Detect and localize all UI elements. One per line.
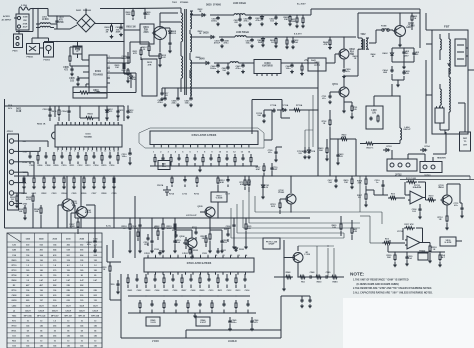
- resistor R317 fb: [403, 223, 423, 243]
- svg-text:C507A: C507A: [157, 184, 164, 187]
- wire bus H-POS: [75, 210, 310, 219]
- node B+ 200V: [290, 4, 311, 28]
- svg-text:A-5.1: A-5.1: [314, 64, 320, 67]
- capacitor C404 S-cap: [382, 66, 393, 80]
- svg-text:C521: C521: [32, 193, 38, 195]
- svg-text:10: 10: [81, 341, 83, 343]
- svg-text:C611: C611: [119, 110, 125, 112]
- svg-text:PR601: PR601: [27, 57, 34, 59]
- wire: [22, 147, 40, 193]
- svg-text:Q506: Q506: [179, 236, 185, 238]
- svg-text:2: 2: [61, 151, 62, 153]
- resistor R510 box: [211, 188, 227, 210]
- capacitor C650: [342, 69, 351, 79]
- capacitor C324: [412, 204, 422, 219]
- svg-text:68: 68: [27, 331, 29, 333]
- svg-text:12K: 12K: [247, 228, 251, 230]
- resistor R616 feedback box: [73, 87, 107, 98]
- op-amp IC702b: [397, 231, 422, 249]
- resistor R611: [133, 47, 142, 60]
- svg-text:V-LIN: V-LIN: [150, 322, 156, 324]
- capacitor C645: [157, 88, 196, 107]
- svg-text:R513: R513: [86, 165, 92, 167]
- capacitor C546: [250, 317, 259, 331]
- inductor L620: [218, 3, 250, 15]
- svg-text:C610: C610: [209, 290, 214, 292]
- svg-text:120uH: 120uH: [38, 310, 44, 312]
- capacitor C617: [160, 88, 169, 101]
- svg-text:2K: 2K: [202, 238, 205, 240]
- capacitor C518: [143, 217, 153, 252]
- relay PR601: [27, 44, 40, 59]
- resistor R320: [387, 252, 397, 267]
- wire: [32, 21, 49, 48]
- svg-text:145: 145: [26, 345, 29, 348]
- resistor R549: [298, 276, 307, 284]
- svg-text:10: 10: [40, 320, 42, 322]
- svg-text:10uH: 10uH: [93, 305, 98, 307]
- svg-text:T601: T601: [172, 2, 178, 4]
- transistor Q508: [284, 246, 311, 270]
- wire: [128, 295, 250, 296]
- wire: [48, 9, 70, 30]
- svg-text:100P: 100P: [273, 169, 278, 171]
- wire ground bus: [14, 176, 231, 258]
- svg-text:1000u: 1000u: [210, 68, 217, 70]
- resistor R550: [102, 262, 111, 277]
- svg-text:68: 68: [40, 331, 42, 333]
- svg-text:1000u: 1000u: [211, 21, 218, 23]
- svg-text:NOTE:: NOTE:: [350, 272, 365, 277]
- svg-text:AC INPUT: AC INPUT: [2, 19, 13, 22]
- svg-text:63R: 63R: [240, 184, 244, 186]
- transistor Q504: [71, 203, 92, 218]
- svg-text:C527: C527: [92, 193, 98, 195]
- svg-text:2: 2: [155, 255, 156, 257]
- transistor Q601 2SK2545: [140, 24, 167, 44]
- svg-text:10K: 10K: [19, 211, 23, 213]
- resistor R321: [438, 252, 445, 267]
- block vertical board outline: [121, 274, 281, 343]
- diode D703: [383, 146, 392, 152]
- svg-text:10: 10: [96, 151, 98, 153]
- svg-text:1.2: 1.2: [26, 265, 29, 267]
- svg-text:145: 145: [67, 345, 70, 348]
- capacitor C621: [243, 14, 251, 25]
- diode D611: [16, 106, 30, 113]
- resistor R548: [283, 271, 293, 278]
- svg-text:145: 145: [80, 335, 83, 338]
- resistor R551: [330, 276, 344, 284]
- svg-text:D402: D402: [382, 52, 388, 55]
- svg-text:279: 279: [53, 260, 56, 262]
- svg-text:100K: 100K: [126, 14, 131, 16]
- svg-text:180: 180: [26, 270, 29, 272]
- diode D704: [420, 145, 430, 152]
- svg-text:655: 655: [80, 250, 83, 252]
- resistor R607: [360, 142, 400, 149]
- svg-text:455: 455: [67, 244, 70, 247]
- svg-text:12: 12: [230, 255, 232, 257]
- svg-text:R506: R506: [38, 165, 44, 167]
- svg-text:1.2: 1.2: [94, 265, 97, 267]
- capacitor C549: [323, 271, 331, 279]
- svg-text:39K: 39K: [284, 19, 288, 21]
- svg-text:C711A: C711A: [270, 104, 277, 107]
- op-amp IC503 LA7840 vertical out: [144, 255, 254, 275]
- svg-text:270: 270: [53, 270, 56, 272]
- pin numbers IC501: [57, 150, 119, 153]
- connector AC socket C601: [16, 14, 29, 30]
- wire vertical bundle: [305, 95, 313, 147]
- svg-text:4K7: 4K7: [40, 284, 43, 287]
- resistor R523: [155, 217, 165, 252]
- svg-text:D707A: D707A: [309, 150, 316, 153]
- diode D604: [130, 73, 138, 84]
- svg-text:C2B: C2B: [12, 250, 17, 252]
- svg-text:10: 10: [40, 341, 42, 343]
- resistor R310: [388, 194, 398, 200]
- wire: [366, 184, 462, 203]
- resistor R307: [357, 190, 368, 207]
- svg-text:1.2: 1.2: [40, 265, 43, 267]
- svg-text:C715: C715: [182, 194, 188, 196]
- svg-text:180: 180: [40, 270, 43, 272]
- svg-text:C2383: C2383: [278, 192, 285, 194]
- capacitor C405: [402, 70, 410, 80]
- svg-text:630: 630: [53, 295, 56, 297]
- svg-text:1R: 1R: [439, 219, 442, 221]
- svg-text:10: 10: [67, 320, 69, 322]
- resistor R311 feedback: [405, 178, 426, 198]
- svg-text:10uH: 10uH: [25, 305, 30, 307]
- resistor R640: [323, 36, 332, 49]
- svg-text:L620 100uH: L620 100uH: [233, 3, 246, 5]
- resistor labels secondary: [196, 9, 204, 59]
- svg-text:470K: 470K: [23, 22, 28, 25]
- svg-text:39: 39: [54, 331, 56, 333]
- resistor R519: [166, 217, 176, 236]
- svg-text:3: 3: [66, 151, 67, 153]
- svg-text:MFT-09: MFT-09: [78, 315, 85, 317]
- block L603 linearity: [366, 102, 383, 129]
- svg-text:IC502 LA7845 CJ7840S: IC502 LA7845 CJ7840S: [192, 134, 217, 137]
- svg-text:80: 80: [81, 275, 83, 277]
- wire: [392, 79, 404, 86]
- svg-text:R526: R526: [82, 193, 88, 195]
- svg-text:803: 803: [94, 295, 97, 297]
- wire: [86, 84, 89, 87]
- svg-text:10: 10: [215, 255, 217, 257]
- svg-text:6: 6: [79, 151, 80, 153]
- capacitor C519: [173, 236, 181, 253]
- svg-text:V FOU: V FOU: [152, 341, 159, 343]
- svg-text:D620: D620: [206, 5, 212, 7]
- svg-text:10K: 10K: [115, 67, 119, 69]
- svg-text:10K: 10K: [94, 92, 99, 94]
- svg-text:MFT-007: MFT-007: [51, 315, 59, 317]
- zener ZD701: [261, 175, 270, 198]
- svg-text:197: 197: [40, 300, 43, 302]
- svg-text:KIA78R05: KIA78R05: [262, 65, 273, 68]
- svg-text:7: 7: [109, 76, 110, 78]
- svg-text:C606: C606: [173, 290, 178, 292]
- resistor R423: [319, 144, 329, 161]
- transistor Q701 drive: [332, 83, 349, 102]
- resistor R702: [322, 116, 331, 130]
- connector JP702: [387, 159, 417, 177]
- svg-text:C508: C508: [46, 165, 52, 167]
- svg-text:196: 196: [26, 255, 29, 257]
- resistor R606 boxed: [73, 42, 82, 59]
- svg-text:10: 10: [27, 320, 29, 322]
- wire: [366, 176, 432, 263]
- svg-text:103: 103: [40, 295, 43, 297]
- svg-text:470u: 470u: [236, 67, 242, 70]
- svg-text:8.2K: 8.2K: [353, 231, 358, 233]
- capacitor C510: [121, 148, 131, 165]
- svg-text:180: 180: [80, 270, 83, 272]
- transistor Q602: [337, 36, 355, 68]
- wire: [14, 9, 19, 19]
- svg-text:2.THE RESISTOR ARE "1/4W" AND: 2.THE RESISTOR ARE "1/4W" AND "5%" UNLES…: [353, 287, 432, 290]
- svg-text:3.15A: 3.15A: [21, 4, 27, 7]
- wire: [426, 13, 474, 144]
- connector JP703: [420, 157, 446, 178]
- diode D630: [193, 33, 215, 39]
- svg-text:R716: R716: [194, 194, 200, 196]
- resistor R617: [122, 68, 130, 83]
- wire: [327, 138, 356, 176]
- svg-text:1: 1: [57, 151, 58, 153]
- svg-text:100u: 100u: [122, 156, 128, 158]
- svg-text:C510: C510: [62, 165, 68, 167]
- capacitor bank below IC502: [154, 154, 252, 166]
- capacitor C631: [245, 36, 253, 47]
- svg-text:10uH: 10uH: [79, 305, 84, 307]
- resistor bank below IC503: [127, 274, 247, 288]
- inductor L604 DEFL: [400, 124, 411, 144]
- svg-text:120uH: 120uH: [92, 310, 98, 312]
- svg-text:470u: 470u: [256, 19, 262, 22]
- resistor R620: [276, 14, 292, 25]
- wire: [150, 165, 258, 171]
- svg-text:IC601: IC601: [95, 71, 102, 73]
- svg-text:C611: C611: [108, 111, 114, 113]
- wire: [48, 9, 86, 17]
- svg-text:145: 145: [67, 335, 70, 338]
- svg-text:196: 196: [40, 290, 43, 292]
- svg-text:4.7M: 4.7M: [75, 49, 80, 52]
- svg-text:4: 4: [70, 150, 71, 153]
- svg-text:B+ 200V: B+ 200V: [297, 4, 306, 6]
- svg-text:562: 562: [40, 245, 43, 247]
- capacitor C504: [61, 105, 70, 121]
- svg-text:680: 680: [26, 300, 29, 302]
- resistor R532: [18, 205, 27, 220]
- svg-text:2KV: 2KV: [404, 55, 409, 57]
- svg-text:TO: TO: [464, 141, 467, 143]
- block CRT socket: [460, 132, 471, 151]
- resistor R616b: [52, 105, 60, 121]
- svg-text:Q701: Q701: [332, 84, 338, 86]
- svg-text:56K: 56K: [35, 211, 39, 213]
- svg-text:9: 9: [208, 255, 209, 257]
- svg-text:145: 145: [94, 345, 97, 348]
- svg-text:39K: 39K: [358, 183, 362, 185]
- resistor R420: [332, 216, 342, 236]
- resistor R504: [84, 113, 99, 120]
- svg-text:3.ALL CAPACITORS RATING ARE ": 3.ALL CAPACITORS RATING ARE " 50V " UNLE…: [353, 292, 433, 295]
- svg-text:C717: C717: [225, 194, 231, 196]
- diode D620: [193, 4, 222, 17]
- block video module outline: [139, 128, 264, 148]
- svg-text:5T4060: 5T4060: [213, 4, 222, 7]
- svg-text:CJ531: CJ531: [182, 253, 189, 255]
- resistor R612: [141, 45, 150, 53]
- degauss coil FV201: [44, 43, 54, 62]
- wire: [67, 176, 95, 218]
- capacitor C646: [171, 87, 179, 106]
- wire bundle: [231, 176, 360, 238]
- svg-text:D6B: D6B: [258, 42, 263, 44]
- svg-text:1.0: 1.0: [53, 320, 56, 322]
- svg-text:R520: R520: [22, 193, 28, 195]
- svg-text:FBT: FBT: [444, 25, 450, 29]
- resistor R721: [239, 175, 250, 192]
- svg-text:80: 80: [67, 275, 69, 277]
- svg-text:HEATER: HEATER: [437, 157, 446, 160]
- resistor R711A: [289, 104, 319, 111]
- svg-text:D711A: D711A: [282, 104, 289, 107]
- svg-text:100u: 100u: [286, 68, 292, 70]
- svg-text:MFT-007: MFT-007: [64, 315, 72, 317]
- svg-text:D703: D703: [386, 146, 392, 148]
- svg-text:1K: 1K: [433, 249, 436, 251]
- variable resistor VR30: [440, 237, 462, 246]
- svg-text:2545: 2545: [143, 31, 149, 34]
- svg-text:400P: 400P: [116, 31, 121, 34]
- svg-text:680: 680: [26, 295, 29, 297]
- resistor R306: [357, 175, 367, 190]
- svg-text:4148: 4148: [16, 110, 22, 113]
- resistor R717: [256, 163, 265, 177]
- block TRIAD: [418, 250, 428, 261]
- resistor R525: [244, 217, 252, 248]
- wire: [123, 23, 124, 60]
- svg-text:861: 861: [67, 255, 70, 257]
- resistor R531: [10, 193, 19, 208]
- capacitor bank lower: [139, 300, 250, 313]
- svg-text:C531: C531: [221, 250, 227, 252]
- resistor R541 box: [158, 161, 170, 170]
- bridge rectifier D601 FB4008: [70, 9, 95, 32]
- svg-text:13: 13: [238, 255, 240, 257]
- op-amp IC601 TDA4605 SMPS controller: [86, 55, 110, 93]
- capacitor C642: [285, 62, 293, 73]
- wire: [264, 110, 290, 140]
- capacitor C531: [216, 248, 226, 254]
- svg-text:100u: 100u: [232, 322, 237, 324]
- svg-text:R504: R504: [87, 113, 93, 116]
- svg-text:195: 195: [80, 260, 83, 262]
- wire pin row: [148, 254, 249, 257]
- svg-text:R522: R522: [42, 193, 48, 195]
- svg-text:R528: R528: [102, 193, 108, 195]
- wire: [388, 245, 445, 253]
- svg-text:10uH: 10uH: [39, 305, 44, 307]
- svg-text:4K7: 4K7: [26, 284, 29, 287]
- wire bus: [5, 99, 56, 228]
- svg-text:1K: 1K: [271, 42, 274, 44]
- op-amp IC501 deflection: [52, 122, 123, 150]
- capacitor C611: [116, 105, 124, 117]
- inductor L630: [222, 32, 252, 37]
- svg-text:6011: 6011: [162, 166, 166, 168]
- svg-text:R5B1: R5B1: [332, 282, 338, 284]
- diode D641: [310, 59, 319, 64]
- svg-text:50uH: 50uH: [52, 305, 57, 307]
- resistor R534: [34, 205, 42, 217]
- block Q601 shield box: [142, 59, 157, 96]
- svg-text:8: 8: [109, 71, 110, 73]
- svg-text:C613: C613: [171, 33, 177, 35]
- resistor R319: [426, 196, 436, 202]
- svg-text:3.9: 3.9: [26, 280, 29, 282]
- resistor R605: [115, 60, 125, 74]
- capacitor C403: [412, 48, 420, 62]
- wire: [342, 49, 358, 113]
- capacitor C617b: [328, 175, 338, 187]
- svg-text:220u: 220u: [172, 103, 178, 105]
- svg-text:145: 145: [80, 324, 83, 327]
- svg-text:R524: R524: [62, 192, 68, 195]
- svg-text:318: 318: [67, 260, 70, 262]
- diode D711A: [277, 104, 289, 112]
- wire: [107, 240, 121, 262]
- block FBT focus divider: [455, 39, 468, 66]
- capacitor C310: [374, 180, 384, 192]
- resistor row mid: [169, 175, 231, 195]
- resistor R545 box: [146, 317, 160, 326]
- svg-text:3: 3: [109, 56, 110, 58]
- svg-text:H HOLD: H HOLD: [228, 341, 237, 343]
- node NOTE text: [350, 272, 433, 295]
- wire: [70, 47, 86, 78]
- wire: [16, 8, 48, 34]
- svg-text:3: 3: [163, 255, 164, 257]
- resistor R535: [189, 248, 199, 255]
- svg-text:103M: 103M: [23, 17, 28, 19]
- svg-text:120uH: 120uH: [25, 310, 31, 312]
- resistor R723: [270, 199, 281, 214]
- connector JP501: [7, 104, 29, 210]
- inductor L601 line filter: [36, 17, 54, 28]
- wire: [175, 217, 222, 258]
- transformer FBT flyback: [432, 25, 468, 135]
- capacitor C520: [220, 230, 228, 253]
- svg-text:FB4008: FB4008: [83, 9, 92, 12]
- svg-text:0.47: 0.47: [53, 279, 57, 282]
- capacitor C630: [214, 36, 229, 47]
- svg-text:400: 400: [40, 249, 43, 252]
- svg-text:C602: C602: [137, 290, 142, 292]
- block parts value table: [7, 233, 102, 348]
- svg-text:IC501: IC501: [85, 134, 91, 136]
- svg-text:C514: C514: [94, 164, 100, 167]
- wire: [128, 289, 251, 292]
- svg-text:145: 145: [40, 345, 43, 348]
